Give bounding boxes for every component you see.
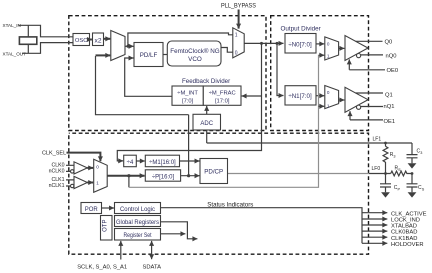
svg-text:VCO: VCO	[188, 56, 202, 63]
svg-text:Q0: Q0	[385, 40, 393, 46]
svg-text:CLK_ACTIVE: CLK_ACTIVE	[391, 211, 427, 217]
svg-text:LF0: LF0	[372, 166, 381, 172]
svg-text:XTAL_IN: XTAL_IN	[3, 23, 21, 28]
svg-text:PLL_BYPASS: PLL_BYPASS	[221, 3, 256, 9]
svg-text:XTAL_OUT: XTAL_OUT	[3, 51, 27, 56]
svg-text:nCLK0: nCLK0	[49, 168, 65, 174]
svg-text:÷M1[16:0]: ÷M1[16:0]	[149, 160, 176, 166]
svg-text:XTALBAD: XTALBAD	[391, 224, 417, 230]
svg-text:nCLK1: nCLK1	[49, 183, 65, 189]
svg-text:÷M_INT: ÷M_INT	[177, 91, 198, 97]
svg-text:POR: POR	[85, 207, 99, 213]
svg-text:÷P[16:0]: ÷P[16:0]	[152, 175, 175, 181]
svg-text:CLK0BAD: CLK0BAD	[391, 230, 417, 236]
svg-text:nQ1: nQ1	[384, 104, 395, 110]
svg-text:1: 1	[327, 53, 330, 58]
svg-text:S: S	[398, 168, 401, 172]
svg-text:3: 3	[393, 154, 395, 158]
svg-text:1: 1	[327, 103, 330, 108]
svg-text:FemtoClock® NG: FemtoClock® NG	[170, 47, 220, 55]
svg-text:0: 0	[327, 42, 330, 47]
svg-text:S: S	[422, 187, 425, 191]
svg-text:[17:0]: [17:0]	[215, 99, 230, 105]
svg-text:Register Set: Register Set	[124, 232, 152, 239]
svg-text:SDATA: SDATA	[143, 265, 162, 271]
svg-text:LF1: LF1	[373, 136, 382, 142]
svg-text:PD/CP: PD/CP	[204, 168, 223, 175]
svg-text:Global Registers: Global Registers	[116, 219, 160, 226]
svg-text:÷M_FRAC: ÷M_FRAC	[209, 91, 236, 97]
svg-text:SCLK, S_A0, S_A1: SCLK, S_A0, S_A1	[77, 265, 127, 271]
svg-text:x2: x2	[95, 37, 102, 44]
svg-text:1: 1	[96, 181, 99, 186]
svg-text:HOLDOVER: HOLDOVER	[391, 242, 424, 248]
svg-text:0: 0	[327, 90, 330, 95]
svg-text:PD/LF: PD/LF	[140, 52, 158, 59]
svg-text:OTP: OTP	[102, 220, 108, 232]
svg-text:CLK1: CLK1	[52, 177, 65, 183]
svg-text:[7:0]: [7:0]	[182, 99, 194, 105]
svg-text:0: 0	[96, 165, 99, 170]
svg-text:3: 3	[420, 151, 422, 155]
svg-text:OSC: OSC	[75, 38, 88, 44]
svg-text:ADC: ADC	[200, 121, 213, 127]
svg-text:Q1: Q1	[385, 92, 393, 98]
svg-text:nQ0: nQ0	[386, 53, 397, 59]
svg-text:LOCK_IND: LOCK_IND	[391, 218, 420, 224]
svg-text:P: P	[398, 187, 401, 191]
svg-text:÷N1[7:0]: ÷N1[7:0]	[288, 93, 312, 100]
svg-text:÷N0[7:0]: ÷N0[7:0]	[288, 41, 312, 48]
svg-text:1: 1	[235, 33, 238, 39]
svg-text:Control Logic: Control Logic	[120, 206, 156, 213]
svg-text:÷4: ÷4	[127, 160, 134, 166]
svg-text:CLK1BAD: CLK1BAD	[391, 236, 417, 242]
svg-text:Output Divider: Output Divider	[281, 26, 321, 33]
svg-text:OE0: OE0	[387, 68, 399, 74]
svg-text:OE1: OE1	[384, 119, 396, 125]
svg-text:0: 0	[235, 50, 238, 56]
svg-text:CLK_SEL: CLK_SEL	[42, 151, 66, 157]
svg-text:Feedback Divider: Feedback Divider	[182, 78, 230, 85]
